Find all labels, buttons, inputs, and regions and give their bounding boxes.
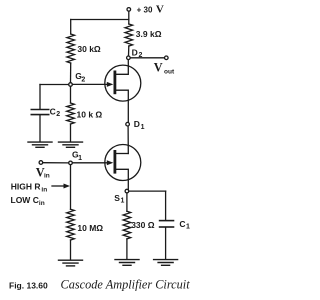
- ground C1: [154, 260, 178, 266]
- svg-text:+ 30: + 30: [137, 5, 153, 14]
- node S1: [125, 189, 129, 193]
- capacitor C1 plates: [160, 220, 174, 222]
- svg-text:Cascode Amplifier Circuit: Cascode Amplifier Circuit: [61, 278, 191, 292]
- wire G2 to Q1 gate: [73, 83, 109, 85]
- transistor Q2 (lower FET) body: [105, 145, 141, 181]
- svg-text:2: 2: [81, 77, 85, 84]
- svg-text:in: in: [44, 173, 50, 180]
- resistor 3.9k zigzag: [125, 24, 133, 46]
- arrow Rin pointer: [52, 185, 66, 187]
- capacitor C1 bottom lead: [165, 228, 167, 259]
- transistor Q2 gate bar: [114, 151, 117, 172]
- svg-text:3.9 kΩ: 3.9 kΩ: [136, 29, 162, 39]
- wire 10M to ground: [70, 240, 72, 260]
- wire G2 to C2: [40, 84, 68, 86]
- wire 30k to G2: [70, 63, 72, 82]
- +30V terminal: [127, 8, 131, 12]
- svg-text:S: S: [114, 193, 120, 203]
- svg-text:D: D: [132, 47, 138, 57]
- svg-text:C: C: [50, 106, 56, 116]
- ground 330: [115, 260, 139, 266]
- wire 330 to ground: [126, 239, 128, 259]
- wire 10k to ground: [70, 124, 72, 142]
- node D1: [126, 122, 130, 126]
- resistor 10M zigzag: [67, 209, 75, 240]
- wire 3.9k to D2: [128, 46, 130, 56]
- capacitor C2 plates: [31, 109, 48, 111]
- svg-text:10 MΩ: 10 MΩ: [77, 223, 103, 233]
- svg-text:1: 1: [186, 224, 190, 231]
- capacitor C1 top lead: [165, 191, 167, 220]
- node G1: [69, 161, 73, 165]
- wire D1 to Q2 drain: [127, 126, 129, 153]
- svg-text:in: in: [41, 187, 47, 194]
- transistor Q1 source lead: [116, 90, 128, 122]
- Q2 gate arrowhead: [107, 160, 114, 165]
- wire G1 to Q2 gate: [72, 162, 108, 164]
- svg-text:2: 2: [56, 111, 60, 118]
- resistor 10k zigzag: [67, 103, 75, 124]
- transistor Q2 source lead: [116, 169, 128, 189]
- resistor 330 zigzag: [123, 211, 131, 239]
- terminal Vout: [165, 56, 169, 60]
- svg-text:out: out: [164, 68, 175, 75]
- svg-text:1: 1: [121, 198, 125, 205]
- svg-text:Fig. 13.60: Fig. 13.60: [9, 281, 48, 291]
- svg-text:V: V: [156, 4, 164, 16]
- svg-text:D: D: [134, 119, 140, 129]
- resistor 30k zigzag: [67, 34, 75, 63]
- wire terminal lead: [128, 11, 130, 19]
- wire S1 to 330: [126, 193, 128, 211]
- node G2: [69, 83, 73, 87]
- svg-text:C: C: [179, 219, 185, 229]
- wire G1 to 10M: [70, 165, 72, 209]
- wire top horizontal: [71, 19, 129, 21]
- wire S1 to C1: [129, 190, 166, 192]
- transistor Q1 drain lead: [116, 60, 128, 74]
- capacitor C2 top lead: [39, 85, 41, 109]
- resistor 3.9k top lead: [128, 20, 130, 25]
- terminal Vin: [39, 161, 43, 165]
- svg-text:in: in: [39, 200, 45, 207]
- ground C2: [28, 142, 52, 147]
- transistor Q2 drain lead: [116, 153, 128, 155]
- transistor Q1 (upper FET) body: [105, 65, 141, 101]
- transistor Q1 gate bar: [114, 72, 117, 93]
- wire G2 to 10k: [70, 87, 72, 103]
- svg-text:V: V: [154, 61, 163, 75]
- ground 10M: [59, 260, 83, 266]
- svg-text:1: 1: [78, 155, 82, 162]
- svg-text:10 k Ω: 10 k Ω: [77, 109, 103, 119]
- svg-text:330 Ω: 330 Ω: [131, 220, 155, 230]
- svg-text:1: 1: [141, 124, 145, 131]
- svg-text:HIGH R: HIGH R: [11, 182, 41, 192]
- svg-text:2: 2: [139, 52, 143, 59]
- wire left top vertical: [70, 20, 72, 35]
- ground 10k: [59, 142, 83, 147]
- wire D2 to Vout: [130, 57, 164, 59]
- wire Vin to G1: [43, 162, 69, 164]
- Q1 gate arrowhead: [107, 82, 114, 87]
- svg-text:LOW C: LOW C: [11, 195, 39, 205]
- node D2: [127, 56, 131, 60]
- capacitor C2 bottom lead: [39, 115, 41, 141]
- svg-text:30 kΩ: 30 kΩ: [77, 44, 101, 54]
